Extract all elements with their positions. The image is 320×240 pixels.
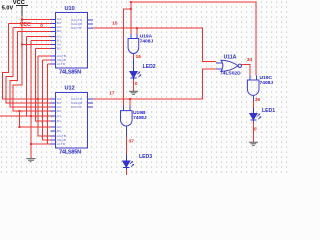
junction dot rail corner	[130, 1, 132, 3]
and-gate U19A	[128, 34, 139, 54]
svg-text:OALTB: OALTB	[71, 105, 82, 109]
wire LED1 cathode to ground	[252, 121, 254, 141]
svg-text:37: 37	[129, 138, 135, 143]
power VCC symbol	[16, 6, 28, 17]
wire U10 A3 row from VCC drop	[22, 19, 51, 21]
junction dot B1 jog corner	[18, 126, 20, 128]
wire net 17 U12 output to U11A input	[93, 69, 216, 99]
wire U10 cascade A>B to U12 cascade A>B	[47, 64, 50, 144]
LED1	[250, 108, 261, 122]
svg-text:A1: A1	[57, 114, 61, 118]
nor-gate U11A	[216, 60, 242, 71]
svg-text:B0: B0	[57, 129, 61, 133]
wire U10 B0 row, vertical to U12 B2 row	[36, 49, 51, 122]
wire net 34 U11A output to U19C	[242, 65, 251, 76]
wire LED3 cathode to bottom edge	[125, 169, 127, 176]
wire top rail net	[131, 2, 256, 75]
junction dot VCC at U10 B1	[21, 44, 23, 46]
svg-text:LED3: LED3	[139, 154, 152, 160]
wire U12 B3 row from left edge	[0, 115, 51, 117]
svg-text:5.0V: 5.0V	[2, 5, 14, 11]
svg-text:0: 0	[40, 23, 43, 28]
svg-text:ALTB: ALTB	[57, 142, 65, 146]
svg-text:VCC: VCC	[20, 22, 31, 28]
svg-text:74LS85N: 74LS85N	[59, 70, 81, 76]
ground (left bus)	[27, 159, 36, 162]
svg-text:7408J: 7408J	[133, 115, 147, 121]
U10 pin names	[57, 17, 82, 66]
svg-text:7408J: 7408J	[140, 39, 154, 45]
svg-text:OALTB: OALTB	[71, 26, 82, 30]
ground (LED1)	[249, 141, 258, 145]
svg-text:B2: B2	[57, 109, 61, 113]
comparator U12 body	[51, 93, 94, 149]
wire U10 B3 row, vertical joining U12 B3 row	[27, 37, 51, 117]
wire rail branch to U19B input A	[123, 9, 131, 106]
svg-text:17: 17	[109, 90, 115, 95]
wire U10 A2 row with jog down to U12 A3	[2, 24, 50, 100]
junction dot rail branch	[130, 8, 132, 10]
svg-text:0: 0	[254, 127, 257, 132]
svg-text:U12: U12	[65, 86, 75, 92]
and-gate U19B	[121, 106, 133, 137]
svg-text:VCC: VCC	[13, 0, 25, 6]
ground (LED2)	[129, 90, 138, 94]
svg-text:LED1: LED1	[262, 108, 275, 114]
wire jog x19.4 from U12 A0 row to B1 row	[19, 111, 50, 127]
junction dot A0 row at x19.4	[18, 110, 20, 112]
svg-text:7408J: 7408J	[260, 80, 274, 86]
LED3	[123, 155, 135, 170]
svg-text:B2: B2	[57, 29, 61, 33]
comparator U10 body	[51, 13, 94, 69]
svg-text:34: 34	[247, 57, 253, 62]
wire net 37 U19B output to LED3	[125, 136, 127, 154]
svg-text:B0: B0	[57, 47, 61, 51]
wire net 36 U19C output to LED1	[252, 101, 254, 108]
svg-text:16: 16	[136, 54, 142, 59]
svg-text:15: 15	[112, 20, 118, 25]
svg-text:74LS85N: 74LS85N	[59, 150, 81, 156]
wire U10 A1 row with jog down to U12 A2	[6, 28, 51, 104]
wire net 16 U19A output	[133, 54, 135, 58]
svg-text:36: 36	[255, 97, 261, 102]
junction dot ground at cascade row	[30, 143, 32, 145]
svg-text:ALTB: ALTB	[57, 62, 65, 66]
junction dot VCC at U10 A3 row	[21, 19, 23, 21]
wire net 15 U10 output to U11A input	[93, 28, 216, 61]
svg-text:0: 0	[135, 81, 138, 86]
wire U19A input B tap from net 15	[136, 28, 138, 34]
svg-text:74LS02D: 74LS02D	[220, 71, 241, 77]
svg-text:U10: U10	[65, 6, 75, 12]
wire VCC drop to U10 B1	[22, 16, 51, 45]
wire jog x21.2 down to U12 A0	[13, 24, 50, 112]
wire LED2 cathode to ground	[133, 79, 135, 90]
and-gate U19C	[247, 76, 259, 102]
U12 pin names	[57, 97, 82, 146]
svg-text:LED2: LED2	[143, 64, 156, 70]
wire U10 cascade A<B to U12 cascade A<B	[38, 56, 51, 136]
wire U19A input A vertical	[130, 2, 132, 34]
LED2	[130, 58, 142, 80]
wire U19B input B tap from net 17	[129, 99, 131, 106]
junction dot ground crossing U12 B3 row	[30, 115, 32, 117]
svg-text:U11A: U11A	[224, 54, 237, 60]
junction dot net15 tap	[136, 27, 138, 29]
wire U10 B2 row and ground drop	[31, 41, 51, 159]
junction dot cascade vertical on U12 A3 row	[37, 98, 39, 100]
junction dot net17 tap	[129, 98, 131, 100]
wire U10 A0 row with jog down to U12 A1	[10, 32, 50, 108]
svg-text:B1: B1	[57, 119, 61, 123]
wire U10 cascade A=B to U12 cascade A=B	[43, 60, 51, 140]
